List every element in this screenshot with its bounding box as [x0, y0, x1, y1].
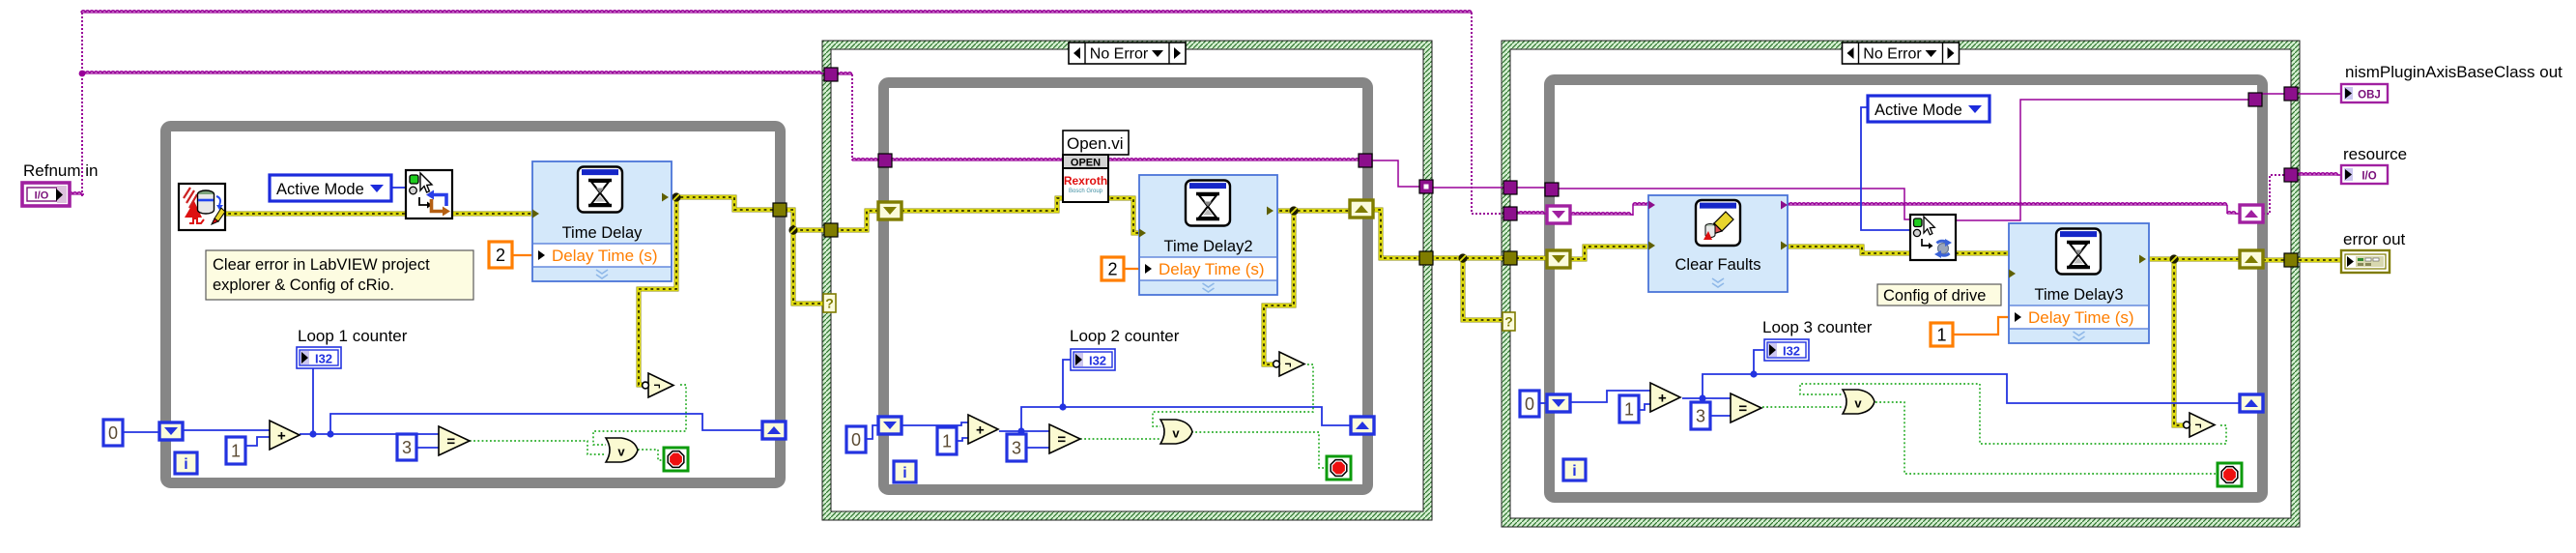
- wire error Clear Faults to mode subVI: [1785, 247, 1910, 253]
- label Loop 1 counter: [298, 327, 408, 345]
- wire class case2 to case3 to loop3: [1426, 187, 1553, 189]
- label Open.vi: [1063, 131, 1129, 155]
- svg-text:Rexroth: Rexroth: [1064, 174, 1107, 188]
- label Loop 3 counter: [1762, 318, 1873, 336]
- pin error out TD3: [2139, 255, 2146, 264]
- wire 2 to Delay Time loop2: [1124, 268, 1142, 270]
- stop terminal loop2: [1327, 456, 1351, 480]
- pin error out CF: [1781, 242, 1788, 250]
- tunnel class loop2 right: [1359, 154, 1372, 167]
- terminal OBJ nismPluginAxisBaseClass out: [2341, 84, 2388, 102]
- not gate loop1: [643, 373, 673, 397]
- svg-text:1: 1: [231, 442, 241, 461]
- enum constant Active Mode loop3: [1868, 96, 1989, 122]
- pin error in CF: [1648, 242, 1655, 250]
- shift register blue loop3 left: [1547, 394, 1570, 412]
- case 3 selector label No Error: [1843, 43, 1960, 64]
- increment node loop2: [968, 415, 998, 444]
- svg-text:Time Delay2: Time Delay2: [1164, 238, 1253, 255]
- label resource: [2343, 145, 2407, 163]
- wire increment out loop2: [999, 430, 1049, 432]
- wire error mode subVI to Time Delay3: [1956, 251, 2010, 256]
- svg-text:=: =: [1057, 432, 1066, 449]
- constant 1 loop2: [937, 427, 957, 454]
- wire Not to Or loop3: [1800, 384, 2226, 444]
- or gate loop3: [1843, 390, 1875, 414]
- pin error in TD2: [1139, 229, 1146, 238]
- tunnel error case3 left: [1503, 251, 1517, 265]
- svg-text:¬: ¬: [2194, 419, 2201, 432]
- svg-text:Config of drive: Config of drive: [1883, 287, 1986, 305]
- svg-text:Delay Time (s): Delay Time (s): [2028, 308, 2134, 327]
- wire class through Open.vi to loop 2 edge: [1108, 159, 1365, 160]
- wire 2 to Delay Time loop1: [512, 254, 532, 256]
- wire error loop1 tunnel to case2: [785, 210, 824, 230]
- tunnel class loop2 left: [878, 154, 892, 167]
- wire to I32 loop2: [1063, 360, 1071, 407]
- wire class into loop3 shift register: [1510, 212, 1548, 214]
- pin class out CF: [1781, 201, 1788, 210]
- svg-text:Loop 3 counter: Loop 3 counter: [1762, 318, 1873, 336]
- wire class Clear Faults out to right shift register: [1785, 203, 2240, 214]
- wire class inside loop3 to subVI: [1553, 189, 1910, 219]
- svg-text:Refnum in: Refnum in: [23, 161, 98, 180]
- node error junction TD1 out: [672, 192, 680, 201]
- tunnel error case2 right: [1419, 251, 1433, 265]
- increment node loop1: [270, 421, 300, 450]
- wire top class drop between cases: [1472, 13, 1503, 214]
- svg-text:resource: resource: [2343, 145, 2407, 163]
- svg-text:Loop 2 counter: Loop 2 counter: [1070, 327, 1180, 345]
- wire error loop3 right to error out: [2263, 258, 2341, 263]
- svg-text:i: i: [902, 465, 906, 481]
- svg-text:Time Delay: Time Delay: [562, 224, 644, 242]
- label Loop 2 counter: [1070, 327, 1180, 345]
- wire Not to Or loop2: [1153, 364, 1313, 426]
- wire 1 to increment loop3: [1639, 404, 1650, 410]
- wire increment out loop3: [1682, 397, 1731, 399]
- icon mode subVI loop3: [1910, 215, 1956, 260]
- svg-text:1: 1: [942, 432, 952, 451]
- wire class loop2 to case2 edge: [1365, 160, 1426, 187]
- constant 0 loop1: [103, 420, 123, 446]
- wire 3 to equals loop1: [416, 447, 439, 449]
- pin error in TD3: [2009, 270, 2016, 278]
- wire class into case 2: [835, 73, 1067, 160]
- while loop 1: [166, 127, 781, 483]
- svg-text:=: =: [1738, 401, 1747, 418]
- constant 1 loop3: [1619, 395, 1639, 422]
- wire increment out loop1: [300, 433, 439, 435]
- pin error out TD1: [662, 193, 669, 202]
- not gate loop3: [2184, 413, 2215, 437]
- or gate loop1: [606, 438, 638, 462]
- tunnel class case3 right resource: [2284, 168, 2298, 182]
- node error junction TD2 out: [1289, 206, 1298, 215]
- svg-text:+: +: [1658, 391, 1667, 407]
- svg-text:Active Mode: Active Mode: [276, 181, 364, 198]
- equals node loop2: [1049, 424, 1080, 453]
- increment node loop3: [1650, 383, 1680, 412]
- wire error branch down to Not gate loop2: [1264, 212, 1294, 364]
- indicator I32 Loop 1 counter: [297, 347, 341, 368]
- svg-text:?: ?: [825, 296, 834, 311]
- wire error Time Delay2 out to right shiftreg: [1274, 209, 1350, 214]
- svg-text:I/O: I/O: [35, 190, 49, 202]
- svg-text:?: ?: [1504, 314, 1513, 330]
- wire error loop2 right to case2 exit: [1372, 210, 1419, 258]
- case structure 2 (No Error): [822, 41, 1432, 520]
- tunnel class case2 right: [1419, 180, 1433, 193]
- stop terminal loop3: [2218, 463, 2242, 486]
- wire loop1 shiftreg to increment: [183, 429, 270, 431]
- svg-text:0: 0: [851, 430, 861, 450]
- label error out: [2343, 230, 2406, 248]
- not gate loop2: [1274, 352, 1304, 376]
- wire to I32 loop1: [312, 368, 314, 434]
- iteration terminal loop2: [894, 461, 916, 482]
- pin error in TD1: [532, 210, 539, 218]
- wire up and right to shiftreg loop3: [1703, 374, 2240, 403]
- constant 1 orange loop3: [1931, 323, 1953, 346]
- shift register class loop3 left: [1547, 206, 1570, 223]
- node error junction TD3 out: [2169, 254, 2178, 263]
- svg-text:Clear error in LabVIEW project: Clear error in LabVIEW project: [213, 256, 430, 274]
- case structure 3 (No Error): [1502, 41, 2300, 527]
- wire error branch down to Not gate loop3: [2174, 260, 2185, 425]
- svg-text:3: 3: [1696, 407, 1705, 426]
- wire Or to stop loop1: [638, 450, 664, 460]
- wire class exit to OBJ terminal: [2255, 93, 2341, 95]
- svg-text:I/O: I/O: [2361, 171, 2376, 183]
- shift register blue loop1 right: [762, 422, 786, 439]
- tunnel error case2 left: [824, 223, 838, 237]
- wire 1 to increment loop2: [957, 438, 968, 441]
- node junctions loop2: [1017, 403, 1066, 434]
- shift register blue loop2 left: [878, 417, 902, 434]
- icon hourglass TD1: [578, 167, 622, 213]
- node error junction between cases: [1458, 253, 1467, 262]
- wire 0 to loop1 shift register: [123, 431, 160, 433]
- terminal error out: [2341, 250, 2390, 273]
- svg-text:Delay Time (s): Delay Time (s): [1159, 260, 1265, 278]
- wire error icon1 to Time Delay: [222, 212, 532, 217]
- constant 2 loop2: [1102, 257, 1124, 280]
- svg-text:¬: ¬: [653, 379, 660, 393]
- svg-text:3: 3: [402, 438, 412, 457]
- wire error case2 to loop2 shift register: [835, 211, 878, 230]
- svg-text:¬: ¬: [1284, 358, 1291, 371]
- constant 0 loop2: [846, 426, 866, 452]
- constant 3 loop1: [397, 434, 416, 460]
- svg-text:v: v: [617, 445, 625, 459]
- svg-text:2: 2: [496, 246, 505, 265]
- wire 0 to loop3 shift register: [1539, 402, 1548, 404]
- icon hourglass TD3: [2056, 229, 2101, 275]
- wire class exit to resource terminal: [2291, 173, 2341, 175]
- shift register blue loop3 right: [2240, 394, 2263, 412]
- equals node loop3: [1731, 393, 1761, 422]
- wire error case2 exit to case3: [1430, 256, 1503, 261]
- svg-text:i: i: [1572, 463, 1576, 480]
- svg-text:+: +: [277, 428, 286, 445]
- pin class in CF: [1648, 201, 1655, 210]
- svg-text:Open.vi: Open.vi: [1067, 134, 1124, 153]
- svg-text:0: 0: [108, 423, 118, 443]
- node junctions loop1: [309, 430, 333, 437]
- icon Open.vi Rexroth: [1063, 155, 1108, 202]
- tunnel class upper case3 left: [1503, 181, 1517, 194]
- wire loop3 shiftreg to increment: [1570, 391, 1650, 402]
- pin error out TD2: [1267, 207, 1274, 216]
- icon hourglass TD2: [1186, 181, 1230, 226]
- svg-text:Loop 1 counter: Loop 1 counter: [298, 327, 408, 345]
- wire error loose end branch case2: [793, 232, 824, 304]
- terminal Refnum in I/O: [22, 183, 70, 206]
- shift register error loop2 right: [1350, 200, 1373, 218]
- constant 2 loop1: [489, 242, 512, 268]
- svg-text:0: 0: [1525, 394, 1534, 414]
- wire class subVI out up to OBJ exit: [1956, 100, 2255, 220]
- wire second class run: [81, 72, 825, 73]
- svg-text:OBJ: OBJ: [2358, 90, 2381, 102]
- or gate loop2: [1160, 420, 1192, 444]
- wire up and right to shiftreg loop2: [1021, 407, 1351, 431]
- constant 3 loop2: [1007, 434, 1026, 461]
- express VI Clear Faults: [1648, 195, 1788, 292]
- wire 3 to equals loop2: [1026, 447, 1049, 449]
- wire error branch down to Not gate loop1: [639, 198, 676, 385]
- tunnel class loop3 right: [2248, 93, 2262, 106]
- stop terminal loop1: [664, 448, 688, 471]
- shift register error loop3 right: [2240, 250, 2263, 268]
- svg-text:Time Delay3: Time Delay3: [2035, 286, 2124, 304]
- while loop 2: [884, 83, 1368, 490]
- label Refnum in: [23, 161, 98, 180]
- wire to I32 loop3: [1754, 350, 1764, 374]
- wire 3 to equals loop3: [1710, 415, 1731, 417]
- case 2 selector label No Error: [1069, 43, 1186, 64]
- svg-text:No Error: No Error: [1090, 46, 1149, 63]
- svg-text:OPEN: OPEN: [1071, 158, 1101, 169]
- wire enum1 to mode subVI: [391, 187, 406, 189]
- wire enum3 to mode subVI: [1861, 107, 1910, 230]
- wire Or to stop loop3: [1875, 402, 2218, 474]
- svg-text:1: 1: [1624, 400, 1634, 420]
- wire error loose end branch case3: [1463, 260, 1503, 320]
- constant 0 loop3: [1520, 391, 1539, 417]
- svg-text:i: i: [184, 456, 187, 473]
- wire top class run: [81, 11, 1472, 13]
- svg-text:Bosch Group: Bosch Group: [1069, 189, 1103, 194]
- iteration terminal loop1: [175, 452, 197, 474]
- wire equals to Or loop2: [1080, 438, 1160, 440]
- node class junction: [79, 71, 86, 77]
- wire Or to stop loop2: [1191, 432, 1327, 468]
- wire 1 to increment loop1: [245, 437, 270, 446]
- label nismPluginAxisBaseClass out: [2345, 63, 2562, 81]
- sticky note comment loop1: [206, 250, 473, 300]
- indicator I32 Loop 3 counter: [1764, 339, 1809, 361]
- svg-text:2: 2: [1107, 260, 1117, 279]
- wire 1 to Delay Time loop3: [1953, 317, 2012, 335]
- loose end ? case2: [823, 294, 836, 312]
- svg-text:explorer & Config of cRio.: explorer & Config of cRio.: [213, 276, 394, 294]
- loose end ? case3: [1503, 312, 1515, 331]
- wire equals to Or loop3: [1762, 406, 1843, 408]
- node junctions loop3: [1699, 370, 1757, 401]
- constant 3 loop3: [1691, 402, 1710, 429]
- tunnel class case3 right OBJ: [2284, 87, 2298, 101]
- node error junction below loop1: [788, 225, 797, 234]
- wire 0 to loop2 shift register: [866, 425, 878, 439]
- svg-text:v: v: [1854, 396, 1862, 411]
- svg-text:v: v: [1172, 426, 1180, 441]
- shift register error loop2 left: [878, 202, 902, 219]
- tunnel error case3 right: [2284, 253, 2298, 267]
- svg-text:I32: I32: [315, 352, 332, 366]
- svg-text:=: =: [446, 434, 455, 451]
- tunnel error loop1 right: [773, 203, 787, 217]
- icon mode subVI loop1: [406, 170, 452, 218]
- wire refnum from Refnum in terminal: [69, 11, 84, 196]
- icon clear-error VI U1: [179, 184, 225, 230]
- svg-text:error out: error out: [2343, 230, 2406, 248]
- wire equals to Or loop1: [470, 441, 606, 454]
- svg-text:1: 1: [1936, 326, 1946, 345]
- svg-text:Active Mode: Active Mode: [1875, 102, 1962, 119]
- svg-text:nismPluginAxisBaseClass out: nismPluginAxisBaseClass out: [2345, 63, 2562, 81]
- wire class shiftreg to Clear Faults: [1571, 203, 1651, 216]
- shift register class loop3 right: [2240, 205, 2263, 222]
- tunnel class case2 left: [824, 68, 838, 81]
- while loop 3: [1550, 80, 2263, 498]
- svg-text:Clear Faults: Clear Faults: [1675, 256, 1761, 274]
- terminal I/O resource: [2341, 165, 2388, 184]
- wire error loop2 shiftreg to Time Delay2: [902, 198, 1142, 233]
- shift register blue loop2 right: [1351, 417, 1374, 434]
- svg-text:I32: I32: [1783, 344, 1800, 359]
- shift register blue loop1 left: [159, 422, 183, 440]
- wire error Time Delay3 out to exit: [2146, 257, 2240, 262]
- indicator I32 Loop 2 counter: [1071, 349, 1115, 370]
- wire error loop3 shiftreg to Clear Faults: [1571, 247, 1651, 259]
- equals node loop1: [439, 426, 470, 455]
- iteration terminal loop3: [1563, 459, 1586, 480]
- wire error Time Delay out to loop tunnel: [669, 197, 774, 210]
- express VI Time Delay: [532, 161, 672, 281]
- wire class right shiftreg up to resource exit: [2263, 175, 2284, 214]
- tunnel class loop3 left: [1545, 183, 1559, 196]
- svg-text:+: +: [976, 422, 985, 439]
- svg-text:I32: I32: [1089, 354, 1106, 368]
- express VI Time Delay2: [1139, 175, 1277, 295]
- wire error case3 to loop3 shift register: [1510, 256, 1548, 261]
- express VI Time Delay3: [2009, 223, 2149, 343]
- icon Clear Faults: [1696, 200, 1740, 246]
- wire loop2 shiftreg to increment: [901, 422, 968, 425]
- tunnel class lower case3 left: [1503, 207, 1517, 220]
- wire counter to right shiftreg loop1: [330, 414, 762, 434]
- label Config of drive: [1877, 284, 2001, 306]
- wire Not to Or loop1: [593, 385, 686, 445]
- svg-text:Delay Time (s): Delay Time (s): [552, 247, 658, 265]
- enum constant Active Mode loop1: [270, 175, 391, 201]
- svg-text:3: 3: [1012, 439, 1021, 458]
- shift register error loop3 left: [1547, 250, 1570, 268]
- constant 1 loop1: [226, 437, 245, 464]
- svg-text:No Error: No Error: [1863, 46, 1922, 63]
